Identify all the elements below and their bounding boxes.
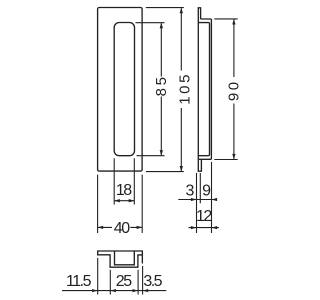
svg-text:25: 25	[116, 273, 132, 290]
bottom dims extension E3	[137, 270, 139, 295]
svg-text:9: 9	[202, 182, 211, 199]
90 dimension line	[233, 20, 235, 160]
arrowhead 25 left	[110, 289, 116, 292]
svg-text:90: 90	[226, 79, 243, 101]
18 extension lines	[114, 158, 134, 204]
side 3/9/12 extension line A	[196, 173, 198, 233]
front view recess slot	[114, 23, 134, 156]
bottom section view (hat profile)	[98, 251, 143, 267]
bottom dims extension E1	[97, 258, 99, 295]
bottom dimension line 11.5/25/3.5	[62, 290, 166, 292]
arrowhead 105 up	[180, 8, 183, 14]
arrowhead 12 right	[212, 226, 218, 229]
105 top extension	[146, 7, 184, 9]
90 top extension	[214, 18, 237, 20]
arrowhead 90 up	[232, 19, 235, 25]
arrowhead 40 right	[137, 226, 143, 229]
arrowhead 25 right	[133, 289, 139, 292]
arrowhead 85 up	[160, 23, 163, 29]
front view plate outline	[98, 8, 143, 172]
arrowhead 9 left-pointing	[212, 198, 218, 201]
svg-text:18: 18	[116, 182, 132, 199]
side view profile	[198, 7, 212, 171]
105 bottom extension	[146, 171, 184, 173]
85 bottom extension	[137, 155, 165, 157]
arrowhead 3.5 outside-right	[143, 289, 149, 292]
svg-text:105: 105	[176, 72, 193, 105]
svg-text:3: 3	[185, 182, 194, 199]
40 extension lines	[98, 175, 143, 233]
svg-text:11.5: 11.5	[66, 273, 92, 290]
12 dimension line	[189, 227, 219, 229]
85 dimension line	[160, 23, 162, 155]
arrowhead 11.5 outside-left	[92, 289, 98, 292]
3/9 dimension line	[178, 199, 216, 201]
arrowhead 18 right	[129, 199, 135, 202]
85 top extension	[136, 22, 165, 24]
arrowhead 3 right-pointing	[191, 198, 197, 201]
arrowhead 12 left	[191, 226, 197, 229]
arrowhead 18 left	[114, 199, 120, 202]
arrowhead 105 down	[180, 166, 183, 172]
svg-text:85: 85	[153, 74, 170, 96]
bottom dims extension E4	[142, 266, 144, 295]
bottom dims extension E2	[109, 270, 111, 295]
arrowhead 40 left	[98, 226, 104, 229]
18 dimension line	[114, 200, 134, 202]
arrowhead 90 down	[232, 154, 235, 160]
40 dimension line	[98, 226, 143, 228]
svg-text:40: 40	[114, 220, 130, 237]
side 3/9 extension line B	[199, 173, 201, 203]
svg-text:3.5: 3.5	[143, 273, 162, 290]
side 9/12 extension line C	[211, 162, 213, 233]
arrowhead 85 down	[160, 150, 163, 156]
105 dimension line	[180, 8, 182, 171]
90 bottom extension	[214, 159, 237, 161]
svg-text:12: 12	[196, 208, 212, 225]
